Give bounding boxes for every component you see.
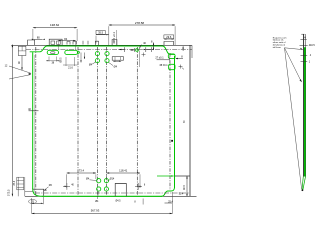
- green S-curve top right: [163, 46, 175, 54]
- green bottom-left corner: [33, 189, 43, 197]
- svg-text:38 ±0.1: 38 ±0.1: [159, 64, 168, 67]
- bottom-left step: [33, 189, 44, 196]
- black sq on right green line: [171, 140, 173, 142]
- svg-text:29.6: 29.6: [166, 35, 172, 39]
- green hole grid bottom: [97, 179, 101, 183]
- dash-dot centerline top: [26, 49, 192, 51]
- svg-text:25.4: 25.4: [14, 180, 16, 185]
- svg-text:440.5: 440.5: [309, 44, 316, 47]
- top tabs: [28, 40, 35, 45]
- top edge black: [11, 44, 192, 46]
- svg-text:Ø4: Ø4: [114, 65, 118, 68]
- svg-text:118.41: 118.41: [119, 169, 128, 173]
- left side dims: [9, 45, 39, 197]
- step edge right bottom: [175, 175, 191, 177]
- dash-dot centerline bottom: [35, 192, 190, 194]
- right edge black: [189, 45, 191, 196]
- svg-text:Ø8.5: Ø8.5: [61, 57, 63, 63]
- svg-text:tall laser: tall laser: [273, 46, 281, 49]
- green slots top: [47, 50, 58, 54]
- gray line beside left green: [34, 55, 36, 193]
- green outline: left vertical: [32, 52, 34, 189]
- svg-text:Ø4.5: Ø4.5: [116, 201, 122, 203]
- svg-text:573.5: 573.5: [7, 189, 11, 196]
- svg-text:27 ±0.1: 27 ±0.1: [155, 56, 164, 59]
- svg-text:21.6: 21.6: [68, 67, 73, 70]
- dashed bend lines vertical: [35, 47, 37, 196]
- green hole grid top: [95, 52, 99, 56]
- small rect hole: [112, 57, 123, 61]
- svg-text:35.5: 35.5: [98, 31, 104, 35]
- svg-text:278.58: 278.58: [135, 21, 145, 25]
- green bottom edge: [42, 195, 162, 197]
- svg-text:567.93: 567.93: [91, 209, 100, 213]
- bottom edge black: [25, 195, 197, 197]
- green top edge: [47, 45, 163, 47]
- svg-text:138.62: 138.62: [50, 23, 60, 27]
- svg-text:Ø8.5 +0.1: Ø8.5 +0.1: [112, 31, 116, 43]
- svg-text:73.4: 73.4: [79, 169, 85, 173]
- side profile: thin sheet edge view with green bend zone: [285, 34, 308, 190]
- svg-text:25.4: 25.4: [179, 194, 184, 196]
- small dims below slots: [46, 57, 60, 62]
- dimension lines, extension lines and arrows for top edge: [33, 25, 175, 50]
- svg-text:25.4: 25.4: [168, 200, 173, 203]
- green left stub + S-curve up to top edge: [30, 46, 48, 52]
- green right vertical: [174, 56, 176, 188]
- green rect near right bend: [169, 64, 175, 69]
- svg-text:Ø14: Ø14: [110, 177, 115, 180]
- green dot on bend line: [77, 51, 79, 53]
- green rect near right bend (upper): [168, 54, 175, 59]
- bottom notch: [115, 184, 126, 197]
- green S bottom right: [162, 187, 175, 196]
- svg-text:40.5: 40.5: [183, 185, 186, 190]
